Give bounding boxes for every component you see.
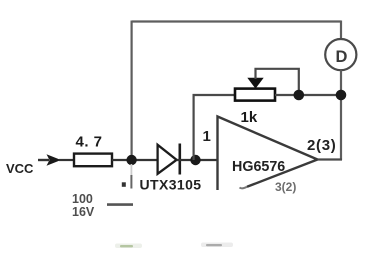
pin 1 label: [203, 128, 211, 145]
diode UTX3105: [140, 144, 202, 193]
capacitor value 100: [72, 192, 93, 206]
svg-text:100: 100: [72, 192, 93, 206]
node junction feedback/output dot: [336, 90, 347, 101]
potentiometer 1k: [235, 89, 275, 126]
resistor R 4.7: [74, 134, 112, 167]
svg-text:UTX3105: UTX3105: [140, 177, 202, 193]
wire from D down to output node: [340, 70, 342, 160]
wire right vertical from top rail to device D: [340, 21, 342, 40]
wire diode cathode to op-amp input: [177, 159, 218, 161]
svg-text:16V: 16V: [72, 205, 95, 219]
device D (motor/load): [325, 39, 356, 70]
svg-text:2(3): 2(3): [307, 137, 336, 154]
node junction VCC/cap dot: [126, 155, 136, 165]
wire pot right terminal to output node: [275, 94, 341, 96]
capacitor plate: [107, 203, 133, 206]
wire top feedback rail: [132, 20, 341, 22]
node junction diode/pot dot: [190, 155, 200, 165]
pin 2(3) label: [307, 137, 336, 154]
svg-text:4. 7: 4. 7: [76, 134, 103, 151]
svg-text:3(2): 3(2): [275, 180, 296, 194]
svg-text:VCC: VCC: [6, 161, 34, 176]
svg-text:HG6576: HG6576: [232, 159, 285, 175]
arrow VCC signal entry: [47, 154, 62, 166]
wire wiper to right terminal: [256, 69, 299, 95]
wire resistor to diode anode: [112, 159, 158, 161]
node junction wiper/pot dot: [294, 90, 305, 101]
wire op-amp output to right vertical: [318, 158, 343, 160]
wire arrow to resistor: [59, 159, 75, 161]
pin 3(2) label: [275, 180, 296, 194]
wire left vertical from top rail down to VCC node: [131, 21, 133, 159]
wire pot left terminal down to op-amp input: [194, 95, 235, 160]
op-amp U HG6576 body: [218, 117, 318, 191]
capacitor stray mark: [122, 182, 126, 187]
node VCC label: [6, 161, 34, 176]
capacitor value 16V: [72, 205, 95, 219]
arrow pot wiper: [247, 78, 263, 89]
capacitor 100/16V lead: [130, 164, 132, 189]
svg-text:1: 1: [203, 128, 211, 145]
svg-text:D: D: [336, 48, 348, 66]
svg-text:1k: 1k: [241, 109, 258, 126]
faint caption mark gray: [201, 243, 233, 248]
wire VCC input lead: [38, 159, 49, 161]
faint caption mark green: [115, 244, 142, 249]
